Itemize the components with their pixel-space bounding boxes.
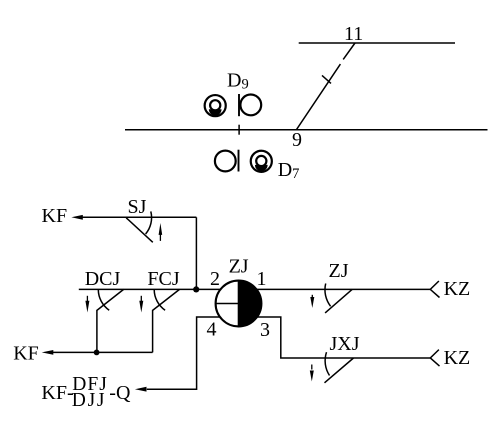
wire: vertical from SJ row down to node: [195, 217, 197, 289]
KZ terminal arrow (lower): [430, 350, 439, 367]
contact FCJ actuation arrow (down): [140, 296, 142, 304]
contact DCJ (movable arm + drop wire): [97, 289, 124, 352]
svg-text:9: 9: [292, 129, 302, 151]
contact JXJ actuation arrow (down): [311, 365, 313, 370]
svg-text:4: 4: [207, 318, 217, 340]
wire: relay pin4 to Q arrow corner: [147, 317, 220, 389]
wire: KF arrow to corner: [80, 216, 196, 218]
signal D7 head circle: [215, 151, 236, 172]
insulated joint tick on main track: [238, 125, 240, 135]
wire: relay pin3 to JXJ row: [257, 317, 430, 358]
contact ZJ (movable arm): [325, 289, 352, 313]
svg-text:DCJ: DCJ: [85, 268, 121, 290]
KZ terminal arrow (upper): [430, 281, 439, 298]
wire: KF return row: [51, 351, 153, 353]
contact ZJ arc: [325, 284, 331, 307]
signal D9 dwarf lamp symbol: [205, 95, 226, 116]
svg-text:1: 1: [257, 268, 267, 290]
contact FCJ (movable arm + drop wire): [153, 289, 180, 352]
signal D9 mast: [238, 94, 240, 116]
Q label arrow (left): [135, 387, 147, 392]
turnout 9 diagonal (two segments with insulation gap): [297, 43, 355, 129]
node junction dot (return row): [94, 350, 100, 356]
svg-text:JXJ: JXJ: [330, 333, 360, 355]
contact DCJ actuation arrow (down): [86, 296, 88, 304]
svg-text:KF: KF: [42, 205, 68, 227]
svg-text:FCJ: FCJ: [147, 268, 179, 290]
contact SJ actuation arrow (up): [159, 232, 161, 241]
contact JXJ arc: [325, 352, 329, 375]
signal D7 mast: [238, 150, 240, 172]
svg-text:2: 2: [210, 268, 220, 290]
contact FCJ arc: [154, 290, 165, 311]
contact DCJ arc: [98, 290, 109, 311]
signal D9 head circle: [240, 95, 261, 116]
contact SJ (movable arm): [126, 218, 153, 243]
KF feed arrow (left): [71, 215, 82, 220]
wire: DCJ/FCJ contact row: [79, 288, 221, 290]
contact SJ arc: [146, 211, 152, 234]
contact ZJ actuation arrow (down): [311, 295, 313, 300]
svg-text:DJJ: DJJ: [72, 390, 106, 411]
svg-text:KF: KF: [13, 342, 39, 364]
svg-text:ZJ: ZJ: [229, 256, 249, 278]
svg-text:KZ: KZ: [444, 347, 471, 369]
svg-text:KZ: KZ: [444, 278, 471, 300]
joint tick on diagonal: [322, 75, 331, 83]
svg-text:-Q: -Q: [109, 382, 131, 404]
label KF-DFJ/DJJ-Q: [41, 374, 131, 411]
KF return arrow (left): [42, 350, 54, 355]
contact JXJ (movable arm): [325, 358, 354, 383]
svg-text:KF-: KF-: [41, 382, 73, 404]
track 11 line: [299, 42, 455, 44]
svg-text:11: 11: [344, 23, 363, 45]
main track line: [125, 129, 488, 131]
wire: relay pin1 to KZ: [257, 288, 431, 290]
signal D7 dwarf lamp symbol: [251, 151, 272, 172]
svg-text:ZJ: ZJ: [329, 260, 349, 282]
svg-text:3: 3: [260, 319, 270, 341]
relay coil ZJ: [216, 281, 262, 327]
node junction dot: [193, 286, 199, 292]
svg-text:SJ: SJ: [128, 196, 147, 218]
